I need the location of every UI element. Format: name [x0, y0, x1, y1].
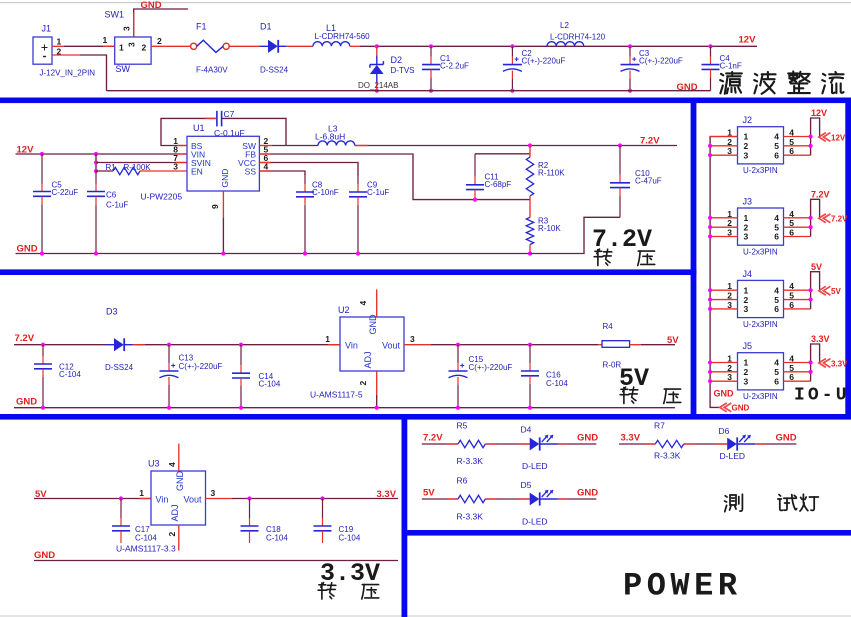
led D5	[521, 480, 558, 527]
svg-text:U1: U1	[193, 123, 205, 133]
svg-text:D6: D6	[719, 426, 730, 436]
svg-text:J2: J2	[743, 115, 753, 125]
wire J1 pin1 to SW1	[64, 45, 115, 47]
svg-text:SS: SS	[245, 166, 257, 176]
gnd rail 5v section	[14, 407, 675, 409]
svg-text:7.2V: 7.2V	[811, 190, 830, 200]
svg-text:J1: J1	[42, 24, 52, 34]
svg-text:ADJ: ADJ	[363, 351, 373, 368]
svg-text:C(+-)-220uF: C(+-)-220uF	[522, 57, 566, 66]
bs pin loop wire	[161, 118, 216, 145]
svg-text:5V: 5V	[811, 262, 822, 272]
capacitor C3	[621, 44, 683, 90]
svg-text:1: 1	[139, 488, 144, 498]
port GND io-u	[720, 403, 750, 413]
capacitor C13	[160, 343, 223, 408]
svg-text:D2: D2	[391, 55, 403, 65]
capacitor C14	[232, 343, 281, 408]
top border line	[0, 2, 851, 3]
svg-text:C-1uF: C-1uF	[106, 201, 128, 210]
node: top 12V rail	[377, 45, 757, 47]
wire lamp row2	[422, 498, 458, 500]
svg-text:SW: SW	[116, 64, 131, 74]
diode D1	[260, 22, 289, 75]
capacitor C2	[503, 44, 566, 90]
svg-text:U-AMS1117-5: U-AMS1117-5	[310, 390, 363, 400]
connector J5	[710, 341, 811, 401]
capacitor C1	[422, 44, 469, 90]
wire c7 to sw net	[222, 118, 286, 145]
svg-text:U-2x3PIN: U-2x3PIN	[743, 320, 778, 329]
svg-text:L-CDRH74-120: L-CDRH74-120	[550, 33, 606, 42]
wire d3 to u2	[133, 344, 340, 346]
svg-text:C-104: C-104	[546, 379, 568, 388]
section title 转压	[594, 249, 655, 265]
svg-text:12V: 12V	[739, 35, 757, 46]
svg-text:L-6.8uH: L-6.8uH	[315, 131, 345, 141]
svg-text:3: 3	[744, 150, 749, 160]
svg-text:7.2V: 7.2V	[15, 333, 35, 344]
svg-text:6: 6	[774, 150, 779, 160]
svg-text:D3: D3	[106, 307, 118, 317]
svg-text:5V: 5V	[667, 335, 679, 346]
inductor L2	[547, 21, 606, 46]
svg-text:R-3.3K: R-3.3K	[654, 451, 681, 461]
wire J4 left bus dots	[708, 288, 712, 311]
divider bar vertical right edge	[845, 98, 851, 420]
wire lamp row1	[422, 443, 458, 445]
switch SW1	[103, 9, 163, 74]
led D4	[521, 425, 558, 472]
svg-text:GND: GND	[577, 488, 598, 499]
tvs diode D2	[358, 46, 415, 90]
wire J4 right riser	[809, 272, 820, 309]
svg-text:GND: GND	[577, 433, 598, 444]
top section gnd rail	[107, 90, 711, 92]
wire r5 to d4	[485, 443, 529, 445]
wire J2 right riser	[809, 118, 820, 155]
svg-text:R-110K: R-110K	[538, 169, 565, 178]
svg-text:F1: F1	[196, 22, 207, 32]
svg-text:C-1uF: C-1uF	[367, 188, 389, 197]
connector J2	[710, 115, 811, 175]
divider bar vertical io-u left	[691, 98, 697, 420]
divider bar horizontal power	[402, 530, 851, 536]
led D6	[719, 426, 756, 461]
divider bar vertical bottom-left	[402, 414, 408, 617]
svg-text:12V: 12V	[831, 133, 846, 142]
svg-text:C-68pF: C-68pF	[485, 180, 512, 189]
wire J5 right riser	[809, 344, 820, 381]
svg-text:R-3.3K: R-3.3K	[457, 512, 484, 522]
svg-text:7.2V: 7.2V	[640, 136, 660, 147]
resistor R5	[457, 421, 486, 467]
wire d6 to gnd	[755, 443, 796, 445]
svg-text:C-104: C-104	[135, 534, 157, 543]
connector J1	[33, 24, 95, 78]
svg-text:3.3V: 3.3V	[811, 334, 830, 344]
sw pin wire to L3	[259, 145, 272, 147]
svg-text:Vout: Vout	[382, 341, 401, 351]
capacitor C17	[112, 496, 157, 543]
svg-text:C-104: C-104	[59, 370, 81, 379]
wire d5 to gnd	[558, 498, 597, 500]
port 7.2V J3	[819, 214, 848, 224]
capacitor C4	[702, 44, 742, 90]
svg-text:D-LED: D-LED	[522, 461, 548, 471]
svg-text:R7: R7	[654, 421, 665, 431]
svg-text:3.3V: 3.3V	[831, 359, 848, 368]
divider bar horizontal mid-left	[0, 269, 697, 275]
u2 vout wire	[404, 344, 431, 346]
5v rail	[34, 498, 151, 500]
svg-text:5V: 5V	[831, 287, 841, 296]
divider bar horizontal top	[0, 98, 851, 104]
capacitor C15	[449, 343, 513, 408]
svg-text:6: 6	[774, 232, 779, 242]
connector J3	[710, 197, 811, 257]
capacitor C7	[214, 109, 245, 138]
svg-text:GND: GND	[220, 169, 230, 188]
svg-text:C-1nF: C-1nF	[720, 62, 742, 71]
svg-text:4: 4	[167, 462, 177, 467]
svg-text:2: 2	[358, 381, 368, 386]
svg-text:3.3V: 3.3V	[377, 489, 397, 500]
capacitor C6	[87, 171, 128, 254]
svg-text:3: 3	[744, 304, 749, 314]
svg-text:3.3V: 3.3V	[621, 433, 641, 444]
fuse F1	[191, 22, 230, 75]
7.2V rail 5V section	[14, 344, 106, 346]
wire J1 pin2 down to gnd rail	[80, 55, 107, 91]
capacitor C19	[314, 496, 361, 543]
vcc wire to C9	[259, 163, 358, 176]
svg-text:C-2.2uF: C-2.2uF	[440, 62, 469, 71]
wire fuse to D1	[229, 45, 259, 47]
svg-text:6: 6	[774, 304, 779, 314]
svg-text:J5: J5	[743, 341, 753, 351]
svg-text:3: 3	[122, 26, 132, 31]
wire L1 to 12V rail	[350, 45, 360, 47]
capacitor C10	[610, 143, 662, 217]
svg-text:1: 1	[325, 334, 330, 344]
section title 滤波整流	[720, 71, 843, 93]
svg-text:C(+-)-220uF: C(+-)-220uF	[639, 57, 683, 66]
svg-text:L-CDRH74-560: L-CDRH74-560	[315, 32, 371, 41]
section title 转压 3.3v	[318, 583, 379, 599]
svg-text:D-SS24: D-SS24	[105, 363, 134, 372]
svg-text:U3: U3	[148, 459, 160, 469]
wire svin	[96, 162, 187, 164]
svg-text:GND: GND	[776, 433, 797, 444]
svg-text:3: 3	[211, 488, 216, 498]
svg-text:D-SS24: D-SS24	[260, 66, 289, 75]
svg-text:C6: C6	[106, 191, 117, 200]
svg-text:3: 3	[744, 376, 749, 386]
wire J3 left bus dots	[708, 216, 712, 239]
svg-text:D-TVS: D-TVS	[391, 66, 415, 75]
svg-text:C(+-)-220uF: C(+-)-220uF	[469, 363, 513, 372]
svg-text:C-104: C-104	[266, 534, 288, 543]
svg-text:U2: U2	[338, 305, 350, 315]
io-u left bus wire	[710, 137, 737, 408]
svg-text:R6: R6	[457, 476, 468, 486]
wire r7 to d6	[684, 443, 727, 445]
u3 vout wire	[206, 498, 233, 500]
svg-text:12V: 12V	[811, 108, 827, 118]
capacitor C11	[466, 154, 530, 200]
svg-text:C7: C7	[224, 109, 235, 119]
svg-text:DO_214AB: DO_214AB	[358, 81, 398, 90]
svg-text:7.2V: 7.2V	[423, 433, 443, 444]
svg-text:J-12V_IN_2PIN: J-12V_IN_2PIN	[40, 69, 96, 78]
svg-text:C-10nF: C-10nF	[312, 188, 339, 197]
port 5V J4	[819, 286, 842, 296]
inductor L3	[315, 124, 355, 146]
svg-text:3: 3	[410, 334, 415, 344]
svg-text:U-2x3PIN: U-2x3PIN	[743, 392, 778, 401]
wire gnd staircase	[530, 217, 620, 253]
svg-text:1: 1	[119, 43, 124, 53]
divider bar horizontal lower	[0, 414, 851, 420]
regulator U2 AMS1117-5	[310, 289, 415, 407]
svg-text:C(+-)-220uF: C(+-)-220uF	[179, 362, 223, 371]
gnd rail 3.3v section	[34, 560, 398, 562]
svg-text:IO-U: IO-U	[794, 386, 850, 406]
resistor R2	[526, 143, 565, 217]
svg-text:U-2x3PIN: U-2x3PIN	[743, 248, 778, 257]
svg-text:GND: GND	[732, 404, 750, 413]
svg-text:J3: J3	[743, 197, 753, 207]
svg-text:U-PW2205: U-PW2205	[141, 192, 183, 202]
capacitor C5	[33, 152, 78, 254]
svg-text:7.2V: 7.2V	[592, 225, 652, 254]
svg-text:U-2x3PIN: U-2x3PIN	[743, 166, 778, 175]
svg-text:3: 3	[173, 162, 178, 172]
svg-text:D5: D5	[521, 480, 532, 490]
capacitor C16	[521, 343, 568, 408]
svg-text:3.3V: 3.3V	[320, 559, 380, 588]
svg-text:Vout: Vout	[183, 495, 202, 505]
wire r6 to d5	[485, 498, 529, 500]
svg-text:GND: GND	[368, 314, 378, 335]
svg-text:9: 9	[210, 204, 220, 209]
svg-text:GND: GND	[16, 397, 37, 408]
svg-text:D1: D1	[260, 22, 272, 32]
wire lamp row3	[619, 443, 655, 445]
ss wire to C8	[259, 171, 305, 175]
svg-text:R-3.3K: R-3.3K	[457, 456, 484, 466]
svg-text:5V: 5V	[423, 488, 435, 499]
svg-text:2: 2	[157, 36, 162, 46]
svg-text:D-LED: D-LED	[720, 451, 746, 461]
U1 gnd pin wire	[222, 191, 224, 218]
svg-text:GND: GND	[175, 471, 185, 492]
svg-text:C-47uF: C-47uF	[635, 177, 662, 186]
section title 测试灯	[725, 494, 819, 511]
wire d4 to gnd	[558, 443, 597, 445]
svg-text:GND: GND	[714, 389, 735, 399]
svg-text:POWER: POWER	[623, 568, 742, 605]
wire J5 left bus dots	[708, 360, 712, 383]
port 3.3V J5	[819, 359, 848, 369]
svg-text:D4: D4	[521, 425, 532, 435]
7.2V output rail	[355, 145, 677, 147]
inductor L1	[313, 23, 370, 46]
svg-text:C-22uF: C-22uF	[52, 188, 79, 197]
12V rail	[16, 153, 188, 155]
svg-text:4: 4	[358, 301, 368, 306]
svg-text:2: 2	[142, 43, 147, 53]
node 12V to svin/en	[94, 152, 98, 173]
svg-text:Vin: Vin	[345, 341, 358, 351]
section title 转压 5v	[620, 387, 681, 403]
capacitor C18	[241, 496, 289, 543]
svg-text:R4: R4	[603, 322, 614, 331]
port 12V J2	[819, 133, 846, 143]
svg-text:GND: GND	[677, 82, 698, 93]
wire gnd stub top	[134, 9, 188, 37]
wire D1 to L1	[287, 45, 313, 47]
svg-text:SW1: SW1	[105, 9, 125, 19]
svg-text:3: 3	[744, 232, 749, 242]
svg-text:U-AMS1117-3.3: U-AMS1117-3.3	[116, 544, 176, 554]
op-chip U1 PW2205	[141, 123, 269, 209]
resistor R1	[96, 163, 187, 175]
svg-text:C-104: C-104	[339, 534, 361, 543]
svg-text:Vin: Vin	[156, 495, 169, 505]
gnd net label top	[141, 0, 162, 11]
svg-text:ADJ: ADJ	[170, 504, 180, 521]
svg-text:R-10K: R-10K	[538, 224, 561, 233]
wire J2 left bus dots	[708, 144, 712, 158]
diode D3	[105, 307, 134, 373]
svg-text:L2: L2	[560, 21, 569, 30]
gnd rail 7.2V section	[16, 253, 531, 255]
svg-text:F-4A30V: F-4A30V	[196, 66, 228, 75]
svg-text:R5: R5	[457, 421, 468, 431]
svg-text:7.2V: 7.2V	[831, 215, 848, 224]
svg-text:C-104: C-104	[259, 380, 281, 389]
svg-text:J4: J4	[743, 269, 753, 279]
svg-text:3: 3	[127, 42, 137, 47]
svg-text:6: 6	[774, 376, 779, 386]
wire SW1 pin2 to fuse	[151, 45, 190, 47]
resistor R6	[457, 476, 486, 522]
svg-text:1: 1	[57, 37, 62, 47]
fb feedback wire	[259, 154, 530, 200]
svg-text:C-0.1uF: C-0.1uF	[214, 128, 245, 138]
capacitor C8	[296, 174, 339, 254]
capacitor C12	[34, 343, 81, 408]
regulator U3 AMS1117-3.3	[116, 444, 216, 554]
svg-text:GND: GND	[34, 550, 55, 561]
svg-text:EN: EN	[191, 166, 203, 176]
svg-text:2: 2	[167, 532, 177, 537]
bottom border line	[0, 615, 851, 617]
connector J4	[710, 269, 811, 329]
resistor R7	[654, 421, 684, 461]
capacitor C9	[349, 174, 389, 254]
svg-text:1: 1	[103, 35, 108, 45]
svg-text:D-LED: D-LED	[522, 517, 548, 527]
resistor R4	[598, 322, 675, 370]
wire J3 right riser	[809, 199, 820, 236]
resistor R3	[526, 217, 561, 254]
